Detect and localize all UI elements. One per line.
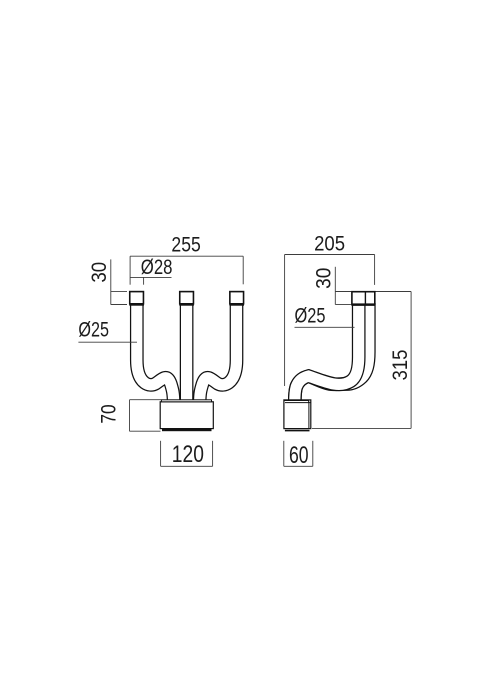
dim D25 front leader [78, 341, 137, 343]
front view center tube fill [181, 303, 192, 402]
svg-text:Ø25: Ø25 [295, 305, 326, 328]
front center cap bottom bar [179, 304, 194, 306]
dim 255 line [130, 255, 243, 257]
side base top plate line [284, 400, 309, 402]
svg-text:315: 315 [389, 350, 412, 381]
front base body [160, 402, 213, 429]
dim 70 top connector [130, 399, 162, 401]
front right cap bottom bar [229, 304, 244, 306]
side cap divider [364, 292, 366, 305]
dim 30 side vertical [334, 267, 336, 305]
side view front tube fill [295, 303, 359, 402]
svg-text:30: 30 [88, 262, 111, 283]
svg-text:205: 205 [314, 232, 345, 255]
svg-text:255: 255 [171, 233, 200, 256]
front right cap [230, 292, 244, 304]
front view left tube outline [137, 303, 174, 402]
dim 30 side bottom connector [335, 304, 351, 306]
dim 70 bottom connector [130, 430, 161, 432]
dim D25 side leader [295, 326, 355, 328]
side base inner top line [285, 402, 311, 404]
dim 315 top connector [375, 291, 411, 293]
svg-text:70: 70 [97, 404, 120, 423]
side base inner right line [308, 403, 310, 429]
svg-text:30: 30 [312, 268, 335, 289]
dim 30 front vertical [110, 259, 112, 304]
dim 255 left extension [129, 256, 131, 285]
dim 30 front bottom connector [111, 304, 127, 306]
front left cap [130, 292, 144, 304]
dim 255 right extension [242, 256, 244, 284]
dim 60 left extension [283, 441, 285, 467]
dim 120 line [161, 465, 213, 467]
front left cap bottom bar [129, 304, 144, 306]
dim 205 right extension [374, 255, 376, 285]
dim 120 right extension [212, 441, 214, 467]
side base foot [285, 430, 310, 432]
side view back tube fill [295, 303, 369, 402]
front center cap [180, 292, 194, 304]
dim 60 right extension [312, 441, 314, 467]
dim 70 vertical [129, 400, 131, 432]
dim 120 left extension [160, 441, 162, 467]
dim 205 line [285, 254, 375, 256]
front base top plate [161, 400, 211, 402]
svg-text:Ø28: Ø28 [141, 256, 173, 279]
front base foot [162, 429, 212, 431]
dim D28 tick [143, 277, 145, 284]
side base body [284, 400, 311, 429]
side view front tube outline [295, 303, 359, 402]
svg-text:Ø25: Ø25 [78, 318, 109, 341]
dim 30 front top connector [111, 290, 127, 292]
front view right tube outline [200, 303, 237, 402]
front view left tube fill [137, 303, 174, 402]
dim 30 side top connector [335, 291, 351, 293]
side view back tube outline [295, 303, 369, 402]
front view center tube outline [180, 303, 194, 402]
svg-text:60: 60 [289, 442, 309, 469]
side cap pair [352, 292, 375, 305]
svg-text:120: 120 [172, 441, 204, 468]
dim 315 vertical [410, 292, 412, 429]
dim D28 leader line [130, 276, 171, 278]
front view right tube fill [200, 303, 237, 402]
dim 60 line [284, 465, 313, 467]
dim 205 left extension [284, 255, 286, 387]
side cap bottom bar [351, 304, 375, 306]
dim 315 bottom connector [312, 427, 411, 429]
